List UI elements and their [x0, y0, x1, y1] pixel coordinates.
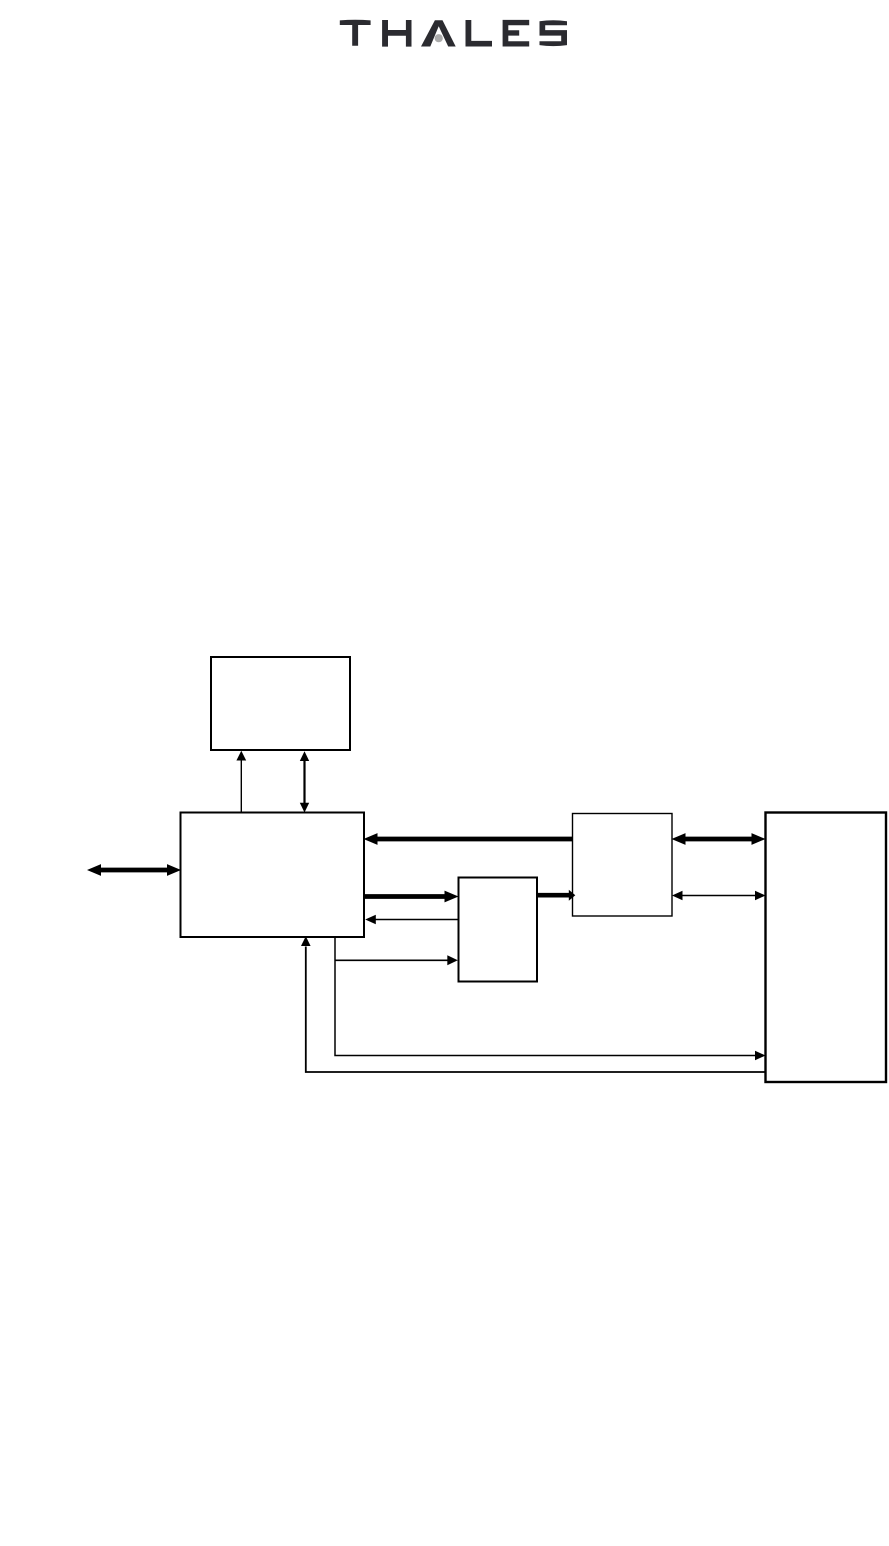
box A (top)	[211, 657, 350, 750]
logo letter H	[382, 20, 411, 47]
wire D-to-B thick arrow (y=838)	[364, 833, 573, 845]
THALES logo	[340, 20, 567, 47]
logo letter A	[421, 20, 456, 46]
wire C-to-B thin arrow (y=919)	[365, 915, 458, 924]
logo letter E	[503, 20, 530, 47]
box E (right tall)	[766, 813, 887, 1083]
logo letter T	[340, 20, 371, 46]
wire B-to-C thick arrow (y=896)	[364, 891, 459, 903]
wire branch to C (y=958)	[335, 955, 458, 965]
wire D-E thick double arrow (y=839)	[672, 833, 766, 845]
wire D-E thin double arrow (y=895.5)	[672, 891, 766, 900]
box B (left large)	[181, 813, 365, 938]
wire A-B double arrow (vertical at x=304)	[300, 751, 309, 812]
box C (center small)	[459, 878, 538, 982]
logo letter L	[466, 20, 493, 47]
wire C-to-D thick arrow (y=895)	[538, 890, 576, 901]
wire E to B-bottom (via y=1071, x=305)	[301, 936, 768, 1072]
wire B-bottom to E (via x=335, y=1056)	[335, 937, 766, 1060]
wire B-to-A thin up arrow (vertical at x=241)	[236, 751, 246, 812]
logo letter A dot	[435, 34, 443, 42]
box D	[573, 814, 673, 917]
logo letter S	[540, 20, 568, 46]
wire external thick double arrow into box B left	[87, 864, 181, 876]
